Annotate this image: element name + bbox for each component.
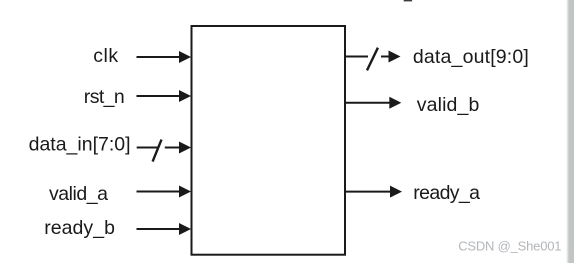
svg-text:clk: clk [93,45,118,67]
svg-text:ready_b: ready_b [44,217,115,239]
svg-text:rst_n: rst_n [84,86,124,108]
svg-text:data_in[7:0]: data_in[7:0] [29,133,131,155]
svg-text:CSDN @_She001: CSDN @_She001 [458,238,561,253]
svg-text:valid_b: valid_b [417,94,480,116]
svg-text:valid_a: valid_a [49,183,108,205]
svg-text:data_out[9:0]: data_out[9:0] [413,46,529,68]
svg-text:ready_a: ready_a [413,182,480,204]
